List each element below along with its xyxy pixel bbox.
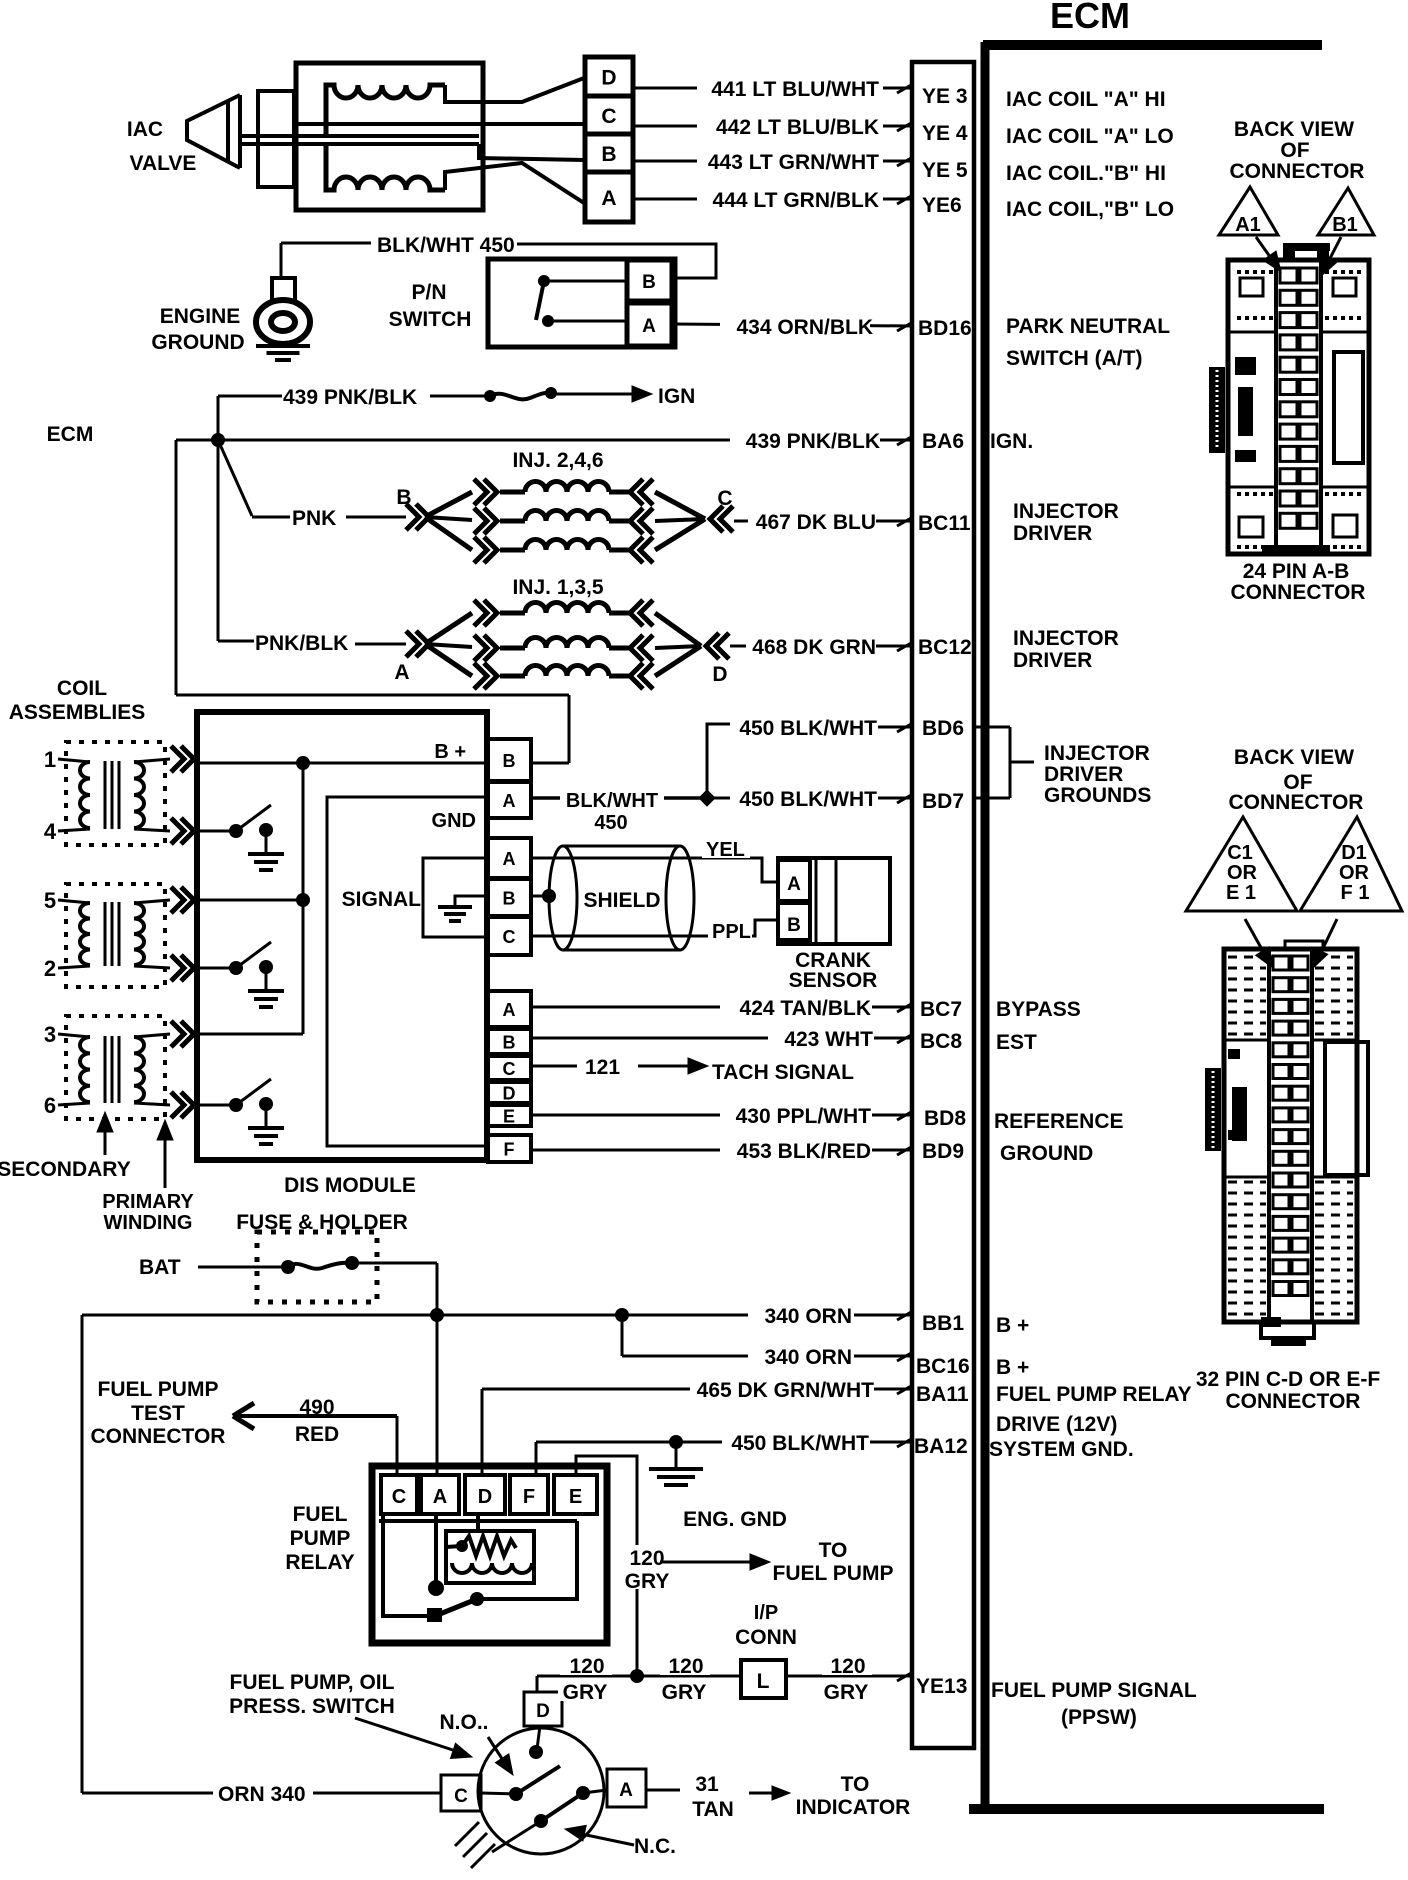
svg-text:1: 1: [44, 747, 56, 772]
svg-text:C: C: [392, 1486, 406, 1508]
svg-text:PRIMARY: PRIMARY: [102, 1191, 194, 1213]
svg-text:A: A: [394, 661, 409, 684]
svg-text:INJECTOR: INJECTOR: [1013, 627, 1119, 650]
svg-text:L: L: [757, 1670, 770, 1693]
svg-text:D: D: [712, 663, 727, 686]
svg-text:442 LT BLU/BLK: 442 LT BLU/BLK: [716, 116, 879, 139]
svg-text:BD9: BD9: [922, 1140, 964, 1163]
svg-text:TAN: TAN: [692, 1798, 734, 1821]
svg-text:BC12: BC12: [918, 636, 972, 659]
svg-text:VALVE: VALVE: [130, 152, 197, 175]
svg-text:453 BLK/RED: 453 BLK/RED: [737, 1140, 871, 1163]
svg-text:SWITCH (A/T): SWITCH (A/T): [1006, 347, 1142, 370]
svg-text:434 ORN/BLK: 434 ORN/BLK: [736, 316, 873, 339]
svg-text:BA12: BA12: [914, 1435, 968, 1458]
svg-text:IGN.: IGN.: [990, 430, 1033, 453]
svg-text:ASSEMBLIES: ASSEMBLIES: [9, 701, 146, 724]
svg-text:490: 490: [299, 1396, 334, 1419]
svg-text:444 LT GRN/BLK: 444 LT GRN/BLK: [713, 189, 879, 212]
svg-text:FUEL PUMP RELAY: FUEL PUMP RELAY: [996, 1383, 1192, 1406]
svg-text:B: B: [396, 486, 411, 509]
svg-text:5: 5: [44, 888, 56, 913]
svg-text:PNK/BLK: PNK/BLK: [255, 632, 348, 655]
svg-text:BAT: BAT: [139, 1256, 181, 1279]
svg-text:FUEL PUMP SIGNAL: FUEL PUMP SIGNAL: [991, 1679, 1197, 1702]
svg-text:D1: D1: [1341, 842, 1367, 864]
svg-text:B: B: [503, 889, 516, 909]
svg-text:BACK VIEW: BACK VIEW: [1234, 118, 1354, 141]
svg-text:465 DK GRN/WHT: 465 DK GRN/WHT: [697, 1379, 875, 1402]
svg-text:DRIVE (12V): DRIVE (12V): [996, 1413, 1117, 1436]
svg-text:C: C: [503, 1059, 516, 1079]
svg-text:FUEL PUMP, OIL: FUEL PUMP, OIL: [230, 1671, 395, 1694]
svg-text:A: A: [433, 1486, 447, 1508]
svg-text:32 PIN C-D OR E-F: 32 PIN C-D OR E-F: [1196, 1368, 1381, 1391]
svg-text:BC11: BC11: [918, 512, 971, 535]
svg-text:B: B: [503, 1033, 516, 1053]
svg-text:A: A: [503, 791, 516, 811]
svg-text:F: F: [523, 1486, 535, 1508]
svg-text:N.O..: N.O..: [439, 1711, 488, 1734]
svg-text:OR: OR: [1339, 862, 1370, 884]
svg-text:REFERENCE: REFERENCE: [994, 1110, 1124, 1133]
svg-text:BYPASS: BYPASS: [996, 998, 1081, 1021]
svg-text:B: B: [503, 751, 516, 771]
svg-text:439 PNK/BLK: 439 PNK/BLK: [746, 430, 880, 453]
svg-text:D: D: [503, 1084, 516, 1104]
svg-text:YE 5: YE 5: [922, 159, 968, 182]
svg-text:E: E: [569, 1486, 582, 1508]
svg-text:430 PPL/WHT: 430 PPL/WHT: [736, 1105, 872, 1128]
svg-text:443 LT GRN/WHT: 443 LT GRN/WHT: [708, 151, 879, 174]
svg-text:INJECTOR: INJECTOR: [1013, 500, 1119, 523]
svg-text:CONNECTOR: CONNECTOR: [1229, 791, 1364, 814]
svg-text:31: 31: [695, 1773, 719, 1796]
svg-text:C: C: [454, 1786, 468, 1807]
svg-text:6: 6: [44, 1093, 56, 1118]
svg-text:ORN 340: ORN 340: [218, 1783, 306, 1806]
svg-text:B +: B +: [434, 741, 466, 763]
svg-text:BA11: BA11: [916, 1383, 969, 1406]
svg-text:PARK NEUTRAL: PARK NEUTRAL: [1006, 315, 1170, 338]
svg-text:SWITCH: SWITCH: [389, 308, 472, 331]
svg-text:BD8: BD8: [924, 1107, 966, 1130]
svg-text:E: E: [503, 1107, 515, 1127]
svg-text:A: A: [503, 849, 516, 869]
svg-text:BD16: BD16: [918, 317, 972, 340]
svg-text:120: 120: [668, 1655, 703, 1678]
svg-text:TEST: TEST: [131, 1402, 185, 1425]
svg-text:B: B: [642, 272, 656, 293]
svg-text:450: 450: [594, 812, 627, 834]
svg-text:ECM: ECM: [1050, 0, 1130, 36]
svg-text:N.C.: N.C.: [634, 1835, 676, 1858]
svg-text:340 ORN: 340 ORN: [764, 1346, 852, 1369]
svg-text:GRY: GRY: [563, 1681, 608, 1704]
svg-text:441 LT BLU/WHT: 441 LT BLU/WHT: [711, 78, 879, 101]
svg-text:PRESS. SWITCH: PRESS. SWITCH: [229, 1695, 395, 1718]
svg-text:450 BLK/WHT: 450 BLK/WHT: [739, 788, 877, 811]
svg-text:CONNECTOR: CONNECTOR: [1231, 581, 1366, 604]
svg-text:SIGNAL: SIGNAL: [342, 888, 422, 911]
svg-text:120: 120: [629, 1547, 664, 1570]
svg-text:IAC COIL "A" HI: IAC COIL "A" HI: [1006, 88, 1166, 111]
svg-text:I/P: I/P: [754, 1602, 778, 1624]
svg-text:468 DK GRN: 468 DK GRN: [752, 636, 876, 659]
svg-text:439 PNK/BLK: 439 PNK/BLK: [283, 386, 417, 409]
svg-text:A: A: [601, 187, 616, 210]
svg-text:TO: TO: [841, 1773, 870, 1796]
svg-text:PUMP: PUMP: [290, 1527, 351, 1550]
svg-text:DIS MODULE: DIS MODULE: [284, 1174, 416, 1197]
svg-text:F 1: F 1: [1341, 882, 1370, 904]
svg-text:PPL: PPL: [712, 921, 751, 943]
svg-text:F: F: [504, 1140, 515, 1160]
svg-text:CONNECTOR: CONNECTOR: [1230, 160, 1365, 183]
svg-text:YE 3: YE 3: [922, 85, 968, 108]
svg-text:GRY: GRY: [824, 1681, 869, 1704]
svg-text:(PPSW): (PPSW): [1061, 1706, 1137, 1729]
svg-text:P/N: P/N: [411, 281, 446, 304]
svg-text:424 TAN/BLK: 424 TAN/BLK: [740, 997, 871, 1020]
svg-text:BC7: BC7: [920, 998, 962, 1021]
svg-text:B +: B +: [996, 1356, 1029, 1379]
svg-text:B: B: [787, 915, 801, 936]
svg-text:DRIVER: DRIVER: [1044, 763, 1123, 786]
svg-text:A: A: [619, 1780, 633, 1801]
svg-text:CONNECTOR: CONNECTOR: [1226, 1390, 1361, 1413]
svg-text:CONN: CONN: [735, 1626, 797, 1649]
svg-text:PNK: PNK: [292, 507, 336, 530]
svg-text:TO: TO: [819, 1539, 848, 1562]
svg-text:GRY: GRY: [625, 1570, 670, 1593]
svg-text:OR: OR: [1227, 862, 1258, 884]
svg-text:COIL: COIL: [57, 677, 107, 700]
svg-text:INDICATOR: INDICATOR: [796, 1796, 911, 1819]
svg-text:RELAY: RELAY: [285, 1551, 354, 1574]
svg-text:450 BLK/WHT: 450 BLK/WHT: [739, 717, 877, 740]
svg-text:FUEL PUMP: FUEL PUMP: [773, 1562, 894, 1585]
svg-text:C: C: [503, 927, 516, 947]
svg-text:450 BLK/WHT: 450 BLK/WHT: [731, 1432, 869, 1455]
svg-text:C: C: [717, 487, 732, 510]
svg-text:121: 121: [585, 1056, 620, 1079]
svg-text:INJ. 2,4,6: INJ. 2,4,6: [512, 449, 603, 472]
svg-text:INJ. 1,3,5: INJ. 1,3,5: [512, 576, 603, 599]
svg-text:ENGINE: ENGINE: [160, 305, 241, 328]
svg-text:BC16: BC16: [916, 1355, 970, 1378]
svg-text:YE6: YE6: [922, 194, 962, 217]
svg-text:GROUNDS: GROUNDS: [1044, 784, 1151, 807]
svg-text:GROUND: GROUND: [151, 331, 244, 354]
svg-text:B: B: [601, 143, 616, 166]
svg-text:FUEL PUMP: FUEL PUMP: [98, 1378, 219, 1401]
svg-text:IAC COIL "A" LO: IAC COIL "A" LO: [1006, 125, 1174, 148]
svg-text:BB1: BB1: [922, 1312, 964, 1335]
svg-text:E 1: E 1: [1226, 882, 1256, 904]
svg-text:SHIELD: SHIELD: [583, 889, 660, 912]
svg-text:ECM: ECM: [47, 423, 94, 446]
svg-text:YE13: YE13: [916, 1675, 967, 1698]
svg-text:BD7: BD7: [922, 790, 964, 813]
svg-text:C1: C1: [1227, 842, 1253, 864]
svg-text:YEL: YEL: [706, 839, 745, 861]
svg-text:D: D: [536, 1701, 550, 1722]
svg-text:467 DK BLU: 467 DK BLU: [756, 511, 876, 534]
svg-text:TACH SIGNAL: TACH SIGNAL: [712, 1061, 854, 1084]
svg-text:OF: OF: [1280, 139, 1309, 162]
svg-text:A1: A1: [1235, 214, 1261, 236]
svg-text:WINDING: WINDING: [104, 1212, 193, 1234]
svg-text:3: 3: [44, 1022, 56, 1047]
svg-text:BD6: BD6: [922, 717, 964, 740]
svg-text:ENG. GND: ENG. GND: [683, 1508, 787, 1531]
svg-text:B1: B1: [1332, 214, 1358, 236]
svg-text:A: A: [503, 1000, 516, 1020]
svg-text:IAC COIL."B" HI: IAC COIL."B" HI: [1006, 162, 1166, 185]
svg-text:D: D: [601, 67, 616, 90]
svg-text:DRIVER: DRIVER: [1013, 649, 1092, 672]
svg-text:BLK/WHT 450: BLK/WHT 450: [377, 234, 515, 257]
svg-text:2: 2: [44, 956, 56, 981]
svg-text:C: C: [601, 105, 616, 128]
svg-text:EST: EST: [996, 1031, 1037, 1054]
svg-text:BC8: BC8: [920, 1030, 962, 1053]
svg-text:DRIVER: DRIVER: [1013, 522, 1092, 545]
svg-text:FUEL: FUEL: [293, 1503, 348, 1526]
svg-text:CONNECTOR: CONNECTOR: [91, 1425, 226, 1448]
svg-text:SYSTEM GND.: SYSTEM GND.: [989, 1438, 1134, 1461]
svg-text:B +: B +: [996, 1314, 1029, 1337]
svg-text:GROUND: GROUND: [1000, 1142, 1093, 1165]
svg-text:IAC: IAC: [127, 118, 163, 141]
svg-text:GND: GND: [432, 810, 476, 832]
svg-text:SENSOR: SENSOR: [789, 969, 878, 992]
svg-text:IGN: IGN: [658, 385, 695, 408]
svg-text:A: A: [787, 874, 801, 895]
svg-text:BA6: BA6: [922, 430, 964, 453]
svg-text:24 PIN A-B: 24 PIN A-B: [1243, 560, 1350, 583]
svg-text:SECONDARY: SECONDARY: [0, 1158, 131, 1181]
svg-text:340 ORN: 340 ORN: [764, 1305, 852, 1328]
svg-text:YE 4: YE 4: [922, 122, 968, 145]
svg-text:GRY: GRY: [662, 1681, 707, 1704]
svg-text:120: 120: [830, 1655, 865, 1678]
svg-text:IAC COIL,"B" LO: IAC COIL,"B" LO: [1006, 198, 1174, 221]
svg-text:INJECTOR: INJECTOR: [1044, 742, 1150, 765]
svg-text:423 WHT: 423 WHT: [784, 1028, 873, 1051]
svg-text:BLK/WHT: BLK/WHT: [566, 790, 658, 812]
svg-text:120: 120: [569, 1655, 604, 1678]
svg-text:BACK VIEW: BACK VIEW: [1234, 746, 1354, 769]
svg-text:D: D: [478, 1486, 492, 1508]
svg-text:4: 4: [44, 819, 57, 844]
svg-text:A: A: [642, 316, 656, 337]
svg-text:RED: RED: [295, 1423, 339, 1446]
